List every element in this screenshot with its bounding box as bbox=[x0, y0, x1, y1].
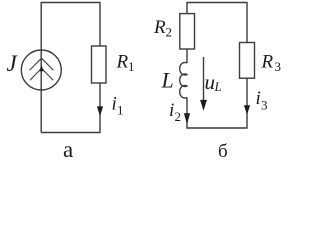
resistor R3 box bbox=[240, 43, 255, 79]
wire: left circuit bottom bbox=[41, 83, 100, 133]
resistor R1 box bbox=[92, 46, 107, 83]
svg-text:а: а bbox=[63, 137, 73, 162]
svg-text:1: 1 bbox=[117, 103, 124, 118]
u_L arrow line bbox=[203, 57, 205, 101]
svg-text:L: L bbox=[161, 68, 174, 93]
svg-text:i: i bbox=[169, 100, 174, 121]
svg-text:i: i bbox=[112, 94, 117, 115]
current source J circle bbox=[21, 50, 61, 90]
wire: R2 to inductor bbox=[186, 49, 188, 63]
wire: right circuit top bbox=[187, 3, 247, 43]
arrow i2 head bbox=[184, 113, 190, 124]
svg-text:б: б bbox=[218, 141, 228, 162]
svg-text:u: u bbox=[205, 70, 216, 94]
svg-text:J: J bbox=[7, 51, 19, 76]
u_L arrowhead bbox=[200, 100, 207, 111]
arrow i1 head bbox=[97, 106, 103, 116]
wire: right circuit bottom bbox=[187, 78, 247, 128]
svg-text:R: R bbox=[153, 17, 166, 38]
svg-text:1: 1 bbox=[128, 59, 135, 74]
wire: left circuit top bbox=[41, 3, 100, 133]
svg-text:2: 2 bbox=[166, 25, 173, 40]
current source arrowhead bbox=[39, 65, 43, 72]
current source chevron lower bbox=[30, 68, 53, 80]
svg-text:2: 2 bbox=[175, 109, 182, 124]
svg-text:i: i bbox=[256, 88, 261, 109]
svg-text:R: R bbox=[116, 52, 129, 73]
inductor L coil bbox=[180, 62, 187, 98]
svg-text:3: 3 bbox=[261, 98, 268, 113]
arrow i3 head bbox=[244, 105, 250, 115]
svg-text:L: L bbox=[214, 79, 222, 94]
current source chevron upper bbox=[30, 58, 54, 70]
resistor R2 box bbox=[180, 14, 195, 49]
svg-text:R: R bbox=[261, 52, 274, 73]
svg-text:3: 3 bbox=[275, 59, 282, 74]
